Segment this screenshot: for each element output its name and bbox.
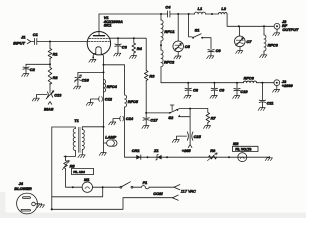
svg-text:RFC4: RFC4 [107,84,118,89]
T1 secondary top lead [82,127,103,130]
capacitor C7 variable [235,26,253,49]
svg-text:C17: C17 [150,117,158,122]
T1 primary top lead [52,127,76,129]
node secondary top [103,126,105,128]
node C9 [213,82,215,84]
svg-text:J1: J1 [21,35,26,40]
rheostat R6 [207,148,217,161]
choke RFC5 [125,95,139,157]
choke RFC1 [160,13,175,50]
resistor R2 [48,68,58,85]
ground C13 [32,97,39,101]
ground C17 [142,124,149,128]
wire J1 to C1 [31,41,34,43]
ground C14 [109,120,116,124]
ground C11 [258,106,265,110]
ground C8 [184,94,191,98]
svg-text:L2: L2 [221,6,226,11]
ground C5 [174,54,181,58]
meter M1 [82,177,92,192]
choke RFC6 [243,75,256,82]
node between chokes [160,44,162,46]
117 VAC terminal arrow [174,185,196,194]
ground end of fil rail [267,156,269,158]
ground C9 [210,94,217,98]
node pot tap [65,156,67,158]
svg-text:R2: R2 [53,75,59,80]
ground C7 [236,49,243,53]
svg-text:C7: C7 [246,39,252,44]
ground C16 [74,85,81,89]
svg-text:C15: C15 [194,134,202,139]
wire R2 to C13 [49,83,51,92]
rail L1 to L2 [206,13,219,15]
under meter loop [52,187,103,197]
com jog wire [52,198,173,210]
pot lead to meter row [66,169,83,187]
svg-text:RFC1: RFC1 [164,29,174,34]
node S1 drop [188,13,190,15]
capacitor C15 [177,132,202,140]
T1 primary bottom lead [64,151,75,157]
resistor R1 [48,49,57,59]
heater node 1 [103,64,105,66]
wire S3 to F1 [133,186,142,188]
node C3 [117,37,119,39]
svg-text:L1: L1 [198,6,203,11]
svg-text:C8: C8 [193,88,199,93]
node C10 [236,82,238,84]
svg-text:RFC3: RFC3 [268,42,279,47]
node RFC3 [263,25,265,27]
shading bottom-left corner [0,192,6,218]
node pot meter [72,186,74,188]
ground cathode [92,57,94,59]
node AC vertical [51,208,53,210]
ground RFC3 [260,53,267,57]
svg-text:S1: S1 [195,27,200,32]
choke RFC2 [161,50,175,83]
capacitor C12 [91,97,113,102]
transformer T1 [73,118,84,152]
capacitor C2 [23,67,36,72]
capacitor C1 [33,32,38,44]
choke RFC3 [264,26,279,53]
svg-text:RFC6: RFC6 [244,75,255,80]
inductor L1 [195,6,206,14]
wire C1 to grid node [37,41,88,43]
svg-text:+2000: +2000 [282,83,294,88]
switch S2 [168,105,180,120]
cathode lead to ground [93,53,96,57]
ground C12 [86,101,93,105]
svg-text:BLOWER: BLOWER [14,186,31,191]
svg-text:R1: R1 [53,51,58,56]
switch S1 [189,14,204,39]
svg-text:S2: S2 [168,115,174,120]
heater line ground [103,127,105,151]
svg-text:BIAS: BIAS [44,107,54,112]
capacitor C14 [113,116,134,121]
screen rail node [145,112,147,114]
ground blower [37,203,44,207]
svg-text:C9: C9 [219,88,225,93]
resistor R7 [206,109,216,124]
choke RFC4 [104,80,118,93]
wire L2 corner down to output rail [227,14,274,26]
T1 secondary bottom lead [81,150,83,154]
screen line tube to corner [109,38,146,70]
svg-text:CR1: CR1 [132,148,140,153]
heater node 2 [103,71,105,73]
capacitor C8 [185,83,199,94]
capacitor C4 [165,5,171,18]
capacitor C3 [115,38,128,51]
tube filament [96,47,101,54]
capacitor C11 [259,83,273,106]
ground J3 [273,88,280,92]
svg-text:T1: T1 [74,118,79,123]
capacitor C6 [208,48,222,54]
lamp I1 [104,135,118,147]
capacitor C13 variable [46,90,62,99]
wire C13 left to ground [37,95,47,97]
svg-text:F1: F1 [143,180,148,185]
svg-text:C11: C11 [267,101,274,106]
wire node2 to C2 [26,64,50,66]
screen rail to S2 [146,112,170,114]
ground C6 [207,54,214,58]
node before M2 [228,156,230,158]
ground R4 [130,54,137,58]
node C7 [238,25,240,27]
ground T1 secondary [78,153,85,157]
ground C3 [114,52,121,56]
row1 wire meter to switch [93,186,121,188]
tube control grid (dashed) [88,40,109,42]
S2 upper throw line to R7 [179,108,208,110]
svg-text:M2: M2 [233,141,239,146]
ground C10 [233,94,240,98]
svg-text:R6: R6 [210,148,216,153]
meter M2 [233,141,259,162]
svg-text:C13: C13 [54,93,62,98]
svg-text:C16: C16 [82,77,90,82]
resistor R4 [132,38,143,54]
node C8 [187,82,189,84]
node C5 drop [177,13,179,15]
svg-text:OUTPUT: OUTPUT [282,27,299,32]
wire F1 to 117VAC terminal [149,186,174,188]
connector J1 [13,35,31,46]
wire node to R1 [49,42,51,49]
svg-text:R7: R7 [211,116,217,121]
svg-text:SK1: SK1 [104,23,112,28]
capacitor C5 variable [173,14,191,54]
node R4 [133,37,135,39]
blower ground stub [35,203,40,205]
svg-text:R3: R3 [149,73,155,78]
shading bottom [0,213,306,219]
ground R7 [204,124,211,128]
heater branch left to C16 [78,72,104,77]
svg-text:C4: C4 [165,5,171,10]
zener Z1 [153,148,162,160]
svg-text:C12: C12 [105,97,113,102]
rheostat R5 FIL ADJ [62,157,93,175]
switch S3 [120,182,133,188]
ground C2 [22,72,29,76]
node after CR1 [147,156,149,158]
diode CR1 [132,148,141,159]
capacitor C17 [143,113,158,124]
top rail plate to C4 [99,13,167,15]
svg-text:R4: R4 [137,46,143,51]
svg-text:C2: C2 [30,67,36,72]
svg-text:+265: +265 [182,148,192,153]
fuse F1 [142,180,150,189]
bottom rail [125,156,267,158]
svg-text:FIL ADJ: FIL ADJ [73,170,85,174]
tube plate [94,35,105,37]
S2 lower throw line [180,116,190,118]
wire R1 to node2 [49,59,51,68]
node grid [49,41,51,43]
rail C4 to L1 [170,13,195,15]
svg-text:FIL VOLTS: FIL VOLTS [235,147,251,151]
svg-text:RFC2: RFC2 [164,59,175,64]
connector J3 [274,79,294,88]
node after Z1 [166,156,168,158]
tube V1 envelope [87,32,110,55]
svg-text:R5: R5 [70,163,76,168]
svg-text:C3: C3 [122,45,128,50]
svg-text:LAMP: LAMP [105,135,116,140]
plate lead [98,14,100,35]
tube screen grid (dashed) [89,38,109,40]
BIAS terminal [44,102,54,112]
capacitor C9 [211,83,225,94]
+265 vertical terminal [188,109,192,148]
svg-text:C5: C5 [185,44,191,49]
ground J2 [273,31,280,35]
inductor L2 [218,6,227,14]
node between L1 L2 [211,13,213,15]
node +265 top [189,108,191,110]
COM terminal arrow [153,191,178,200]
svg-text:INPUT: INPUT [13,41,25,46]
svg-text:C6: C6 [216,48,222,53]
heater branch right [104,65,125,95]
svg-text:M1: M1 [84,177,89,182]
ground C15 [172,138,179,142]
connector J2 [274,19,299,32]
capacitor C10 [234,83,249,94]
svg-text:C10: C10 [240,89,248,94]
node C11 [261,82,263,84]
connector J4 blower [14,181,37,214]
svg-text:117 VAC: 117 VAC [181,188,196,193]
svg-text:Z1: Z1 [153,148,159,153]
HV rail [161,82,274,84]
node row1 [102,186,104,188]
svg-text:RFC5: RFC5 [128,99,139,104]
node 2 [49,63,51,65]
heater lead down [101,54,103,127]
tube V1 labels [103,15,123,28]
svg-text:C1: C1 [33,32,38,37]
wire S1 to C6 [203,38,211,49]
capacitor C16 variable [74,75,89,85]
svg-text:COM: COM [153,191,163,196]
resistor R3 screen feed [144,71,155,113]
primary AC vertical [51,127,53,209]
svg-text:C14: C14 [126,116,134,121]
